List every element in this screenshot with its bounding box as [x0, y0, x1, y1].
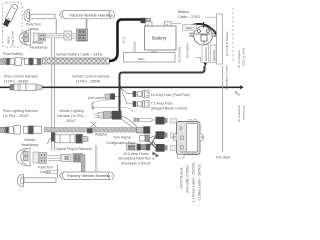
11-pin connector pair	[95, 111, 122, 120]
3-port module	[173, 119, 203, 154]
wires lamps to connectors	[46, 34, 65, 38]
svg-text:Turn Signal: Turn Signal	[113, 136, 131, 140]
vehicle control harness label	[72, 75, 110, 84]
svg-text:26347: 26347	[66, 119, 76, 123]
fuse wires from junction	[121, 87, 134, 104]
svg-text:10.0-Amp Fuses: 10.0-Amp Fuses	[123, 152, 149, 156]
battery negative clamp	[141, 18, 146, 23]
thick black battery cable	[109, 20, 141, 62]
svg-text:(3-Pin) – 25045: (3-Pin) – 25045	[76, 80, 100, 84]
svg-text:To Switched: To Switched	[237, 105, 241, 122]
wire banner to connector	[86, 19, 88, 29]
fuse block wires with arrows	[153, 152, 157, 156]
battery	[145, 22, 177, 50]
svg-text:Snowplow Control): Snowplow Control)	[121, 161, 150, 165]
svg-text:Fire Wall: Fire Wall	[216, 156, 230, 160]
plow lighting connector row	[0, 126, 42, 135]
factory vehicle harness banner (bottom)	[60, 172, 115, 180]
headlamp connector cluster	[34, 33, 46, 42]
svg-text:WHT/GRN: WHT/GRN	[186, 43, 190, 58]
plow lighting harness label	[3, 109, 38, 118]
svg-text:Vehicle: Vehicle	[24, 138, 35, 142]
long control wire	[0, 86, 240, 88]
thin channel to top right	[205, 16, 217, 18]
svg-text:Battery: Battery	[178, 10, 189, 14]
svg-text:MOTOR: MOTOR	[212, 49, 216, 61]
svg-text:(Non-DRL or DRL): (Non-DRL or DRL)	[186, 165, 190, 193]
svg-text:(Snowplow Park/Turn &: (Snowplow Park/Turn &	[118, 157, 155, 161]
vehicle headlamps label (top)	[30, 41, 48, 50]
factory harness connector	[77, 29, 88, 41]
svg-text:To Snowplow: To Snowplow	[237, 49, 241, 68]
down arrow under solenoid boxes	[204, 63, 208, 67]
below-rope connector	[48, 134, 89, 144]
park/turn lamp (top)	[24, 10, 55, 22]
turn signal configuration plug label	[106, 136, 135, 146]
svg-text:15-Amp Fuse (Park/Turn): 15-Amp Fuse (Park/Turn)	[151, 93, 191, 97]
svg-text:BLACK(W): BLACK(W)	[178, 47, 182, 62]
park/turn lamps label (bottom)	[38, 166, 53, 175]
black arc cable over solenoid	[184, 24, 218, 41]
svg-text:Plow Lighting Harness: Plow Lighting Harness	[3, 109, 38, 113]
plow battery cable label	[3, 52, 26, 61]
wire from + to RED	[171, 23, 181, 25]
not used connector	[88, 93, 119, 100]
wires circle connector to cluster	[72, 34, 77, 39]
svg-text:6022 or 6402: 6022 or 6402	[242, 47, 246, 66]
svg-text:7.5-Amp Fuse: 7.5-Amp Fuse	[151, 102, 173, 106]
wires cluster to cluster	[48, 156, 62, 161]
fuse 2 (7.5-amp)	[133, 101, 149, 107]
svg-text:+: +	[166, 22, 168, 26]
fuse 1 (15-amp)	[133, 91, 149, 97]
wire from lamp down	[55, 19, 57, 34]
row A feed wire	[134, 118, 156, 123]
10-amp fuse block	[127, 144, 151, 150]
curved not-used wire	[91, 100, 133, 112]
leader arrow	[92, 102, 94, 108]
connector with circle	[64, 31, 72, 40]
svg-text:3-Port Module: 3-Port Module	[180, 167, 184, 188]
svg-text:(11-Pin) – 26347: (11-Pin) – 26347	[3, 114, 29, 118]
svg-text:Vehicle Lighting: Vehicle Lighting	[59, 109, 84, 113]
row A connector into port A	[156, 117, 177, 125]
RED tag near solenoid	[183, 25, 197, 31]
X wires to rope	[91, 116, 138, 129]
bottom factory connector cluster	[61, 154, 85, 173]
svg-text:Vehicle Control Harness: Vehicle Control Harness	[72, 75, 110, 79]
dashed boundary top right	[232, 8, 234, 62]
svg-text:Plow Control Harness: Plow Control Harness	[4, 75, 38, 79]
vehicle lighting harness label	[57, 109, 86, 123]
double wire from plug connector to banner	[95, 145, 97, 172]
wires to lamp	[45, 171, 58, 174]
bottom connector cluster near lamp	[33, 152, 47, 164]
factory vehicle harness banner (top)	[60, 11, 116, 19]
plow control connector	[10, 84, 42, 91]
vehicle battery cable (hatched)	[43, 58, 110, 64]
10-amp label	[118, 152, 155, 166]
svg-text:Headlamps: Headlamps	[21, 143, 39, 147]
svg-text:BLK: BLK	[122, 36, 126, 43]
park/turn lamps label (top)	[26, 23, 41, 31]
vehicle headlamp (top)	[20, 31, 31, 46]
bottom park/turn lamp	[18, 175, 57, 187]
svg-text:Typical Plug-in Harness: Typical Plug-in Harness	[55, 147, 92, 151]
thick wire from solenoid to junction	[120, 66, 205, 111]
svg-text:Headlamps: Headlamps	[30, 46, 48, 50]
row C X wires + connector into port C	[148, 137, 177, 152]
svg-text:RED: RED	[186, 26, 193, 30]
arrowhead	[240, 85, 244, 89]
adapter connectors at rope end	[137, 127, 151, 134]
svg-text:L1 Green Label – 29050/1: L1 Green Label – 29050/1	[192, 162, 196, 202]
terminal boxes below solenoid	[202, 45, 216, 63]
svg-text:Park/Turn: Park/Turn	[38, 166, 53, 170]
svg-text:(not used): (not used)	[88, 96, 104, 100]
firewall line	[222, 66, 224, 152]
svg-text:Cable – 22511: Cable – 22511	[178, 15, 201, 19]
module vertical labels	[180, 162, 202, 202]
svg-text:Plow Battery: Plow Battery	[3, 52, 23, 56]
svg-text:L1 Blue Label – 26760/1: L1 Blue Label – 26760/1	[198, 164, 202, 201]
svg-text:Battery: Battery	[152, 36, 167, 41]
svg-text:Vehicle Battery Cable – 63411: Vehicle Battery Cable – 63411	[56, 53, 103, 57]
small in-line connector on rope	[87, 128, 93, 133]
plow control harness label	[4, 75, 38, 84]
svg-text:Adapter: Adapter	[95, 133, 108, 137]
bottom headlamp	[17, 148, 31, 166]
RED cable box	[124, 53, 176, 63]
left ground wire of solenoid	[195, 58, 201, 63]
svg-text:Lamps: Lamps	[28, 27, 39, 31]
solenoid circle	[190, 26, 216, 45]
double vertical wires to lower lamps	[52, 39, 55, 152]
650X plug cover plug shape	[2, 3, 18, 27]
650X plug cover dashed box	[3, 3, 23, 48]
svg-text:To Vehicle Battery: To Vehicle Battery	[225, 31, 229, 56]
650X plug cover label	[7, 31, 15, 46]
svg-text:RED: RED	[138, 57, 145, 61]
module bottom tab	[178, 155, 185, 159]
svg-text:GROUND: GROUND	[204, 46, 208, 61]
svg-text:Plug Cover: Plug Cover	[11, 31, 15, 46]
svg-text:Accessory: Accessory	[242, 105, 246, 120]
row B connector into port B	[140, 131, 177, 141]
svg-text:Snowplow Control: Snowplow Control	[225, 65, 229, 90]
plow battery cable connector	[0, 58, 41, 66]
svg-text:Factory Vehicle Harness: Factory Vehicle Harness	[67, 173, 110, 178]
svg-text:Harness (11-Pin) –: Harness (11-Pin) –	[57, 114, 86, 118]
typical plug-in harness rope	[44, 128, 137, 133]
svg-text:−: −	[147, 22, 149, 26]
svg-text:(Straight Blade Control): (Straight Blade Control)	[151, 106, 188, 110]
battery cable 22511 label	[178, 10, 201, 19]
svg-text:Factory Vehicle Harness: Factory Vehicle Harness	[70, 13, 113, 18]
vehicle headlamps label (bottom)	[21, 138, 39, 147]
svg-text:(3-Pin) – 26359: (3-Pin) – 26359	[4, 80, 28, 84]
